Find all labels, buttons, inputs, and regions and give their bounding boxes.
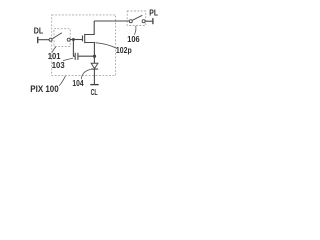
- wire diode to CL terminal: [93, 69, 95, 84]
- wire node B to diode 104: [93, 56, 95, 63]
- node B junction dot: [93, 55, 96, 58]
- switch 106 right contact: [142, 20, 145, 23]
- terminal CL bar: [90, 84, 98, 86]
- svg-text:DL: DL: [34, 25, 43, 35]
- switch 101 blade: [52, 33, 62, 39]
- leader 103: [63, 58, 73, 61]
- switch 106 blade: [133, 15, 143, 20]
- transistor 102p drain lead: [85, 21, 95, 35]
- svg-text:101: 101: [48, 52, 61, 61]
- svg-text:PL: PL: [149, 8, 158, 17]
- leader 104: [81, 69, 91, 79]
- transistor 102p source lead: [85, 43, 95, 57]
- node A junction dot: [72, 38, 75, 41]
- leader 106: [134, 26, 136, 35]
- terminal PL: [152, 18, 154, 24]
- capacitor 103 left plate: [74, 53, 76, 60]
- switch 101 dashed box: [54, 29, 70, 47]
- diode 104 cathode bar: [91, 68, 98, 70]
- svg-text:104: 104: [72, 79, 84, 88]
- wire drain to switch 106: [94, 20, 129, 22]
- diode 104 anode triangle: [91, 63, 98, 68]
- wire DL terminal to switch 101: [38, 39, 49, 41]
- terminal DL: [37, 37, 39, 43]
- switch 101 left contact: [49, 38, 52, 41]
- svg-text:106: 106: [127, 35, 140, 44]
- svg-text:CL: CL: [91, 87, 98, 97]
- switch 106 dashed box: [127, 11, 146, 26]
- switch 101 right contact: [67, 38, 70, 41]
- wire switch 106 to PL terminal: [145, 20, 152, 22]
- wire capacitor to node B: [78, 55, 95, 57]
- leader PIX 100: [59, 76, 65, 86]
- switch 106 left contact: [129, 20, 132, 23]
- wire node A down to capacitor 103: [73, 40, 75, 57]
- pixel block PIX 100 dashed boundary: [52, 15, 116, 76]
- svg-text:PIX 100: PIX 100: [30, 84, 58, 94]
- svg-text:103: 103: [52, 61, 65, 70]
- wire switch 101 to gate: [70, 39, 82, 41]
- transistor 102p gate bar: [82, 36, 84, 42]
- leader 102p: [96, 43, 117, 49]
- leader 101: [52, 47, 56, 53]
- transistor 102p channel bar: [84, 34, 86, 43]
- svg-text:102p: 102p: [116, 45, 132, 55]
- capacitor 103 right plate: [77, 53, 79, 60]
